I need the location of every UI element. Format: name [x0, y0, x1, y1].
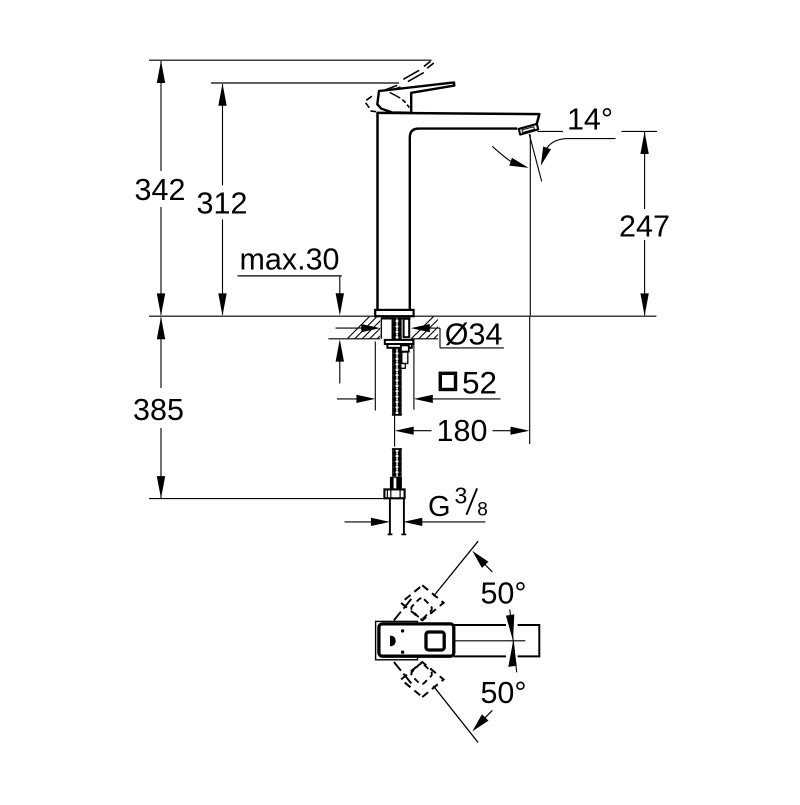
wire hose centerline break: [394, 416, 396, 447]
svg-text:385: 385: [133, 393, 184, 427]
node faucet inner outline: [410, 129, 518, 310]
svg-text:180: 180: [437, 414, 488, 448]
svg-text:50°: 50°: [480, 676, 526, 710]
svg-text:52: 52: [462, 364, 497, 400]
node dimension 342: [160, 61, 162, 315]
node G3/8 tube: [389, 498, 391, 534]
node plan dots: [401, 629, 404, 632]
node max30 lower arrow: [336, 339, 344, 361]
node plan knob square: [426, 632, 444, 650]
wire dashes at end of 342 line: [424, 61, 434, 68]
node plan lower diagonal: [433, 686, 478, 743]
node lever inner line: [390, 92, 401, 98]
svg-text:8: 8: [477, 499, 488, 520]
node plan body+lever thick: [379, 624, 454, 656]
node dimension 180: [395, 427, 414, 435]
wire countertop line: [149, 315, 656, 317]
node shank assembly below counter: [381, 318, 411, 339]
node countertop section hatching right: [404, 311, 469, 346]
wire counter bottom right: [411, 338, 438, 340]
node plan upper diag arrow: [472, 551, 488, 568]
svg-text:312: 312: [197, 187, 248, 221]
node braided hose lower: [392, 448, 402, 476]
node plan dashed outer square lower: [401, 662, 444, 697]
wire plan centerline: [455, 640, 525, 642]
node aerator: [519, 124, 538, 135]
wire hose end reference line: [149, 498, 384, 500]
node hose fitting: [390, 477, 402, 490]
node arc arrow left: [492, 146, 511, 162]
wire top reference line 342 level: [149, 59, 432, 61]
node aerator slot: [522, 127, 535, 133]
node plan dashed lever edges lower: [394, 662, 411, 683]
node plan spout rectangle: [454, 625, 540, 656]
node countertop section hatching left: [340, 311, 405, 346]
node plan D detail: [390, 636, 396, 647]
wire 312 reference line: [211, 82, 399, 84]
svg-text:14°: 14°: [567, 103, 613, 137]
wire counter bottom left: [328, 338, 380, 340]
node lever handle solid: [377, 82, 454, 112]
svg-text:max.30: max.30: [240, 243, 340, 277]
node plan dashed lever edges upper: [394, 599, 411, 620]
node plan dashed outer square upper: [401, 585, 444, 620]
node connection nut: [384, 489, 404, 498]
node dimension square52: [337, 398, 362, 400]
node plan dashed inner square lower: [410, 662, 433, 685]
node dimension O34: [336, 327, 367, 329]
svg-text:342: 342: [135, 173, 186, 207]
svg-text:247: 247: [619, 210, 670, 244]
node braided hose upper: [392, 319, 402, 415]
svg-text:50°: 50°: [480, 576, 526, 610]
node plan lower diag arrow: [472, 714, 488, 731]
node washer: [385, 340, 414, 344]
node base plate side view: [375, 310, 413, 316]
wire stream vertical line: [529, 135, 531, 316]
node lever dashed details: [366, 96, 410, 112]
node plan upper diagonal: [434, 541, 479, 596]
node dimension 247: [644, 132, 646, 315]
node dashed raised lever: [384, 70, 424, 92]
wire angled 14 deg line: [529, 134, 542, 181]
svg-text:Ø34: Ø34: [445, 318, 503, 352]
node dimension 385: [160, 318, 162, 498]
node stepped rod: [401, 345, 409, 351]
wire 247 extension line at spout level: [538, 130, 564, 132]
node mounting nut: [387, 344, 411, 348]
node faucet body outline: [378, 113, 540, 310]
node plan dashed inner square upper: [410, 597, 433, 620]
node dimension G3/8: [345, 521, 377, 523]
svg-text:G: G: [428, 491, 451, 523]
svg-text:3: 3: [455, 483, 468, 509]
node plan angle arc line: [510, 610, 517, 673]
node plan base square: [376, 621, 418, 659]
node dimension 312: [222, 84, 224, 315]
node leader 14 deg: [567, 138, 616, 140]
